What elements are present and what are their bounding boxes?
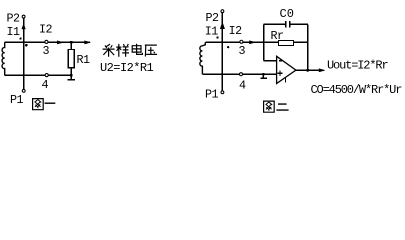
- svg-text:4: 4: [42, 78, 49, 92]
- hanzi 样: [116, 44, 129, 57]
- wire: bottom secondary wire: [5, 74, 72, 76]
- hanzi 图 (of 图一): [33, 99, 44, 110]
- op-amp power stub: [285, 78, 287, 83]
- hanzi 图 (of 图二): [264, 101, 275, 112]
- hanzi 压: [145, 45, 157, 56]
- svg-text:C0: C0: [280, 7, 294, 21]
- junction dot R1 top: [70, 41, 73, 44]
- current I1 arrow (up): [22, 24, 26, 29]
- op-amp plus sign: [277, 71, 282, 76]
- polarity dot (primary) fig2: [216, 36, 218, 38]
- secondary winding L2 (coil): [200, 42, 205, 74]
- capacitor C0 plates: [286, 21, 290, 28]
- left feedback rail: [263, 24, 265, 60]
- output arrow: [319, 69, 325, 72]
- output wire: [296, 69, 320, 71]
- arrow at right end of top wire: [85, 41, 91, 44]
- polarity dot (secondary): [25, 44, 28, 47]
- node 3 terminal circle fig2: [239, 40, 243, 44]
- resistor Rr body: [279, 41, 294, 46]
- Chinese text drawn as strokes: [33, 44, 289, 113]
- hanzi 一: [45, 102, 56, 104]
- terminal P2 circle: [22, 15, 26, 19]
- polarity dot (primary): [20, 38, 22, 40]
- svg-text:4: 4: [239, 79, 246, 93]
- terminal P2 circle: [220, 9, 224, 13]
- resistor R1 body: [68, 50, 74, 68]
- node 4 terminal circle fig2: [239, 72, 243, 76]
- svg-text:U2=I2*R1: U2=I2*R1: [100, 61, 154, 75]
- wire: minus input: [264, 60, 277, 62]
- op-amp minus sign: [279, 60, 282, 62]
- current I1 arrow (up): [220, 22, 224, 29]
- current I2 arrow fig2: [249, 41, 255, 44]
- ground symbol fig1: [67, 75, 75, 79]
- node 3 terminal circle: [44, 40, 48, 44]
- capacitor C0 right wire: [290, 23, 308, 25]
- junction dot output/rail: [306, 69, 309, 72]
- hanzi 电: [132, 44, 142, 55]
- svg-text:I2: I2: [229, 24, 243, 38]
- svg-text:I1: I1: [7, 25, 21, 39]
- secondary winding L1 (coil): [2, 42, 5, 75]
- svg-text:3: 3: [43, 44, 50, 58]
- terminal P1 circle: [22, 89, 26, 93]
- junction dot ground fig2: [262, 73, 265, 76]
- node 4 terminal circle: [45, 73, 49, 77]
- resistor R1 leads: [70, 42, 72, 75]
- wire: top secondary wire: [5, 41, 90, 43]
- terminal P1 circle: [220, 90, 224, 94]
- svg-text:P2: P2: [206, 11, 220, 25]
- svg-text:R1: R1: [77, 53, 91, 67]
- junction dot R1 bottom: [70, 74, 73, 77]
- wire: bottom secondary wire to op-amp + input: [202, 73, 276, 75]
- hanzi 采 (of 采样电压): [103, 44, 115, 57]
- svg-text:P1: P1: [205, 88, 219, 102]
- hanzi 二: [276, 104, 288, 110]
- svg-text:Uout=I2*Rr: Uout=I2*Rr: [327, 58, 388, 72]
- wire: top secondary wire to feedback network: [205, 41, 307, 43]
- svg-text:P2: P2: [7, 12, 21, 26]
- svg-text:CO=4500/W*Rr*Ur: CO=4500/W*Rr*Ur: [311, 83, 403, 97]
- primary conductor P1-P2 vertical wire: [221, 13, 223, 91]
- svg-text:P1: P1: [10, 93, 24, 107]
- svg-text:I2: I2: [39, 23, 53, 37]
- polarity dot (secondary) fig2: [227, 46, 229, 48]
- svg-text:I1: I1: [205, 24, 219, 38]
- op-amp U1 triangle: [277, 56, 296, 83]
- primary conductor P1-P2 vertical wire: [23, 18, 25, 89]
- ground symbol fig2 at + input: [261, 74, 267, 78]
- svg-text:3: 3: [239, 44, 246, 58]
- right feedback rail: [307, 24, 309, 70]
- capacitor C0 left wire: [264, 23, 286, 25]
- current I2 arrow on top wire: [57, 41, 63, 44]
- svg-text:Rr: Rr: [271, 29, 284, 43]
- text labels (Latin): [7, 7, 403, 107]
